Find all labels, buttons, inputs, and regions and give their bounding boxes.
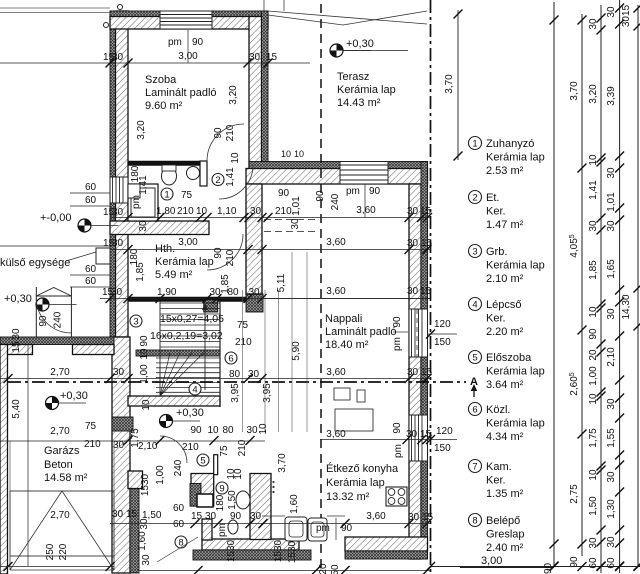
svg-text:6: 6 — [472, 405, 477, 416]
svg-text:180: 180 — [215, 494, 226, 511]
legend item 4 Lépcső — [469, 298, 482, 311]
svg-text:3,00: 3,00 — [178, 237, 198, 248]
dashed beam lines Nappali — [264, 219, 319, 221]
svg-text:pm: pm — [346, 186, 360, 197]
wall exterior north (hatch) — [110, 17, 268, 30]
wall north of Nappali (hatch) — [246, 169, 428, 185]
svg-text:pm: pm — [168, 37, 182, 48]
wall corner Nappali west top — [246, 294, 263, 312]
svg-text:15: 15 — [421, 238, 433, 249]
legend item 1 Zuhanyzó — [469, 137, 482, 150]
kitchen table — [335, 409, 373, 431]
svg-text:10: 10 — [294, 149, 304, 159]
circled 4 — [189, 383, 201, 395]
svg-text:3,20: 3,20 — [136, 120, 147, 140]
svg-text:Kerámia lap: Kerámia lap — [486, 366, 545, 378]
wall Hth north (hatch) — [110, 221, 209, 235]
WC2 sink — [228, 520, 238, 534]
wall exterior east insulation — [421, 162, 428, 560]
svg-text:1,10: 1,10 — [217, 206, 237, 217]
svg-text:3: 3 — [133, 317, 138, 328]
dim row y380 garage — [0, 378, 430, 380]
garage door panel — [10, 491, 114, 556]
kitchen sink double — [285, 517, 307, 541]
svg-text:9.60 m²: 9.60 m² — [145, 100, 183, 112]
svg-text:pm: pm — [217, 523, 228, 537]
svg-text:16x0,2,19=3,02: 16x0,2,19=3,02 — [150, 330, 223, 342]
svg-text:30: 30 — [209, 287, 221, 298]
wall pier stair — [204, 300, 218, 312]
diagonal step line Belepo — [157, 537, 198, 562]
svg-text:240: 240 — [330, 193, 341, 210]
svg-text:30: 30 — [112, 207, 124, 218]
svg-text:15: 15 — [420, 286, 432, 297]
svg-text:2.10 m²: 2.10 m² — [486, 273, 524, 285]
svg-text:3,60: 3,60 — [326, 429, 346, 440]
svg-text:30: 30 — [588, 537, 599, 549]
porch steps — [35, 287, 37, 337]
svg-text:külső egysége: külső egysége — [0, 257, 70, 269]
svg-text:90: 90 — [588, 328, 599, 340]
svg-text:1,60: 1,60 — [137, 531, 148, 551]
svg-text:90: 90 — [315, 190, 326, 202]
svg-text:Et.: Et. — [486, 192, 499, 204]
svg-text:150: 150 — [434, 443, 451, 454]
svg-text:30: 30 — [407, 206, 419, 217]
svg-text:120: 120 — [434, 319, 451, 330]
svg-text:1530: 1530 — [140, 473, 151, 496]
svg-text:180: 180 — [129, 248, 140, 265]
WC sink — [187, 167, 200, 180]
dim row y249 — [110, 249, 430, 251]
extension lines top — [263, 0, 265, 11]
svg-text:75: 75 — [85, 421, 97, 432]
svg-text:1,01: 1,01 — [291, 196, 302, 216]
svg-text:30: 30 — [250, 511, 262, 522]
counter edge lines — [262, 515, 285, 517]
wall south-east bottom (hatch) — [345, 537, 428, 551]
svg-text:9: 9 — [219, 484, 224, 495]
wall west lower insulation strip — [130, 484, 139, 573]
garage door witness lines — [9, 441, 11, 491]
svg-text:5,40: 5,40 — [11, 399, 22, 419]
svg-text:60: 60 — [173, 503, 185, 514]
dim row y523 — [110, 523, 430, 525]
roof lines top-left — [0, 7, 110, 9]
WC2 toilet — [236, 491, 250, 509]
svg-text:5: 5 — [472, 353, 477, 364]
svg-text:30: 30 — [11, 328, 22, 340]
svg-text:1,00: 1,00 — [588, 366, 599, 386]
svg-text:30: 30 — [408, 512, 420, 523]
dim chain line x554 — [553, 2, 555, 567]
svg-text:1530: 1530 — [226, 539, 237, 562]
wall south entry bottom (hatch) — [202, 539, 299, 550]
svg-text:3,95: 3,95 — [262, 383, 273, 403]
dim row y298 — [100, 298, 430, 300]
svg-text:14.43 m²: 14.43 m² — [337, 97, 381, 109]
wall WC north — [128, 161, 207, 166]
svg-text:1,41: 1,41 — [138, 175, 149, 195]
svg-text:1530: 1530 — [287, 540, 298, 563]
svg-text:1,00: 1,00 — [155, 465, 166, 485]
svg-text:Kam.: Kam. — [486, 461, 512, 473]
svg-text:3,20: 3,20 — [228, 85, 239, 105]
dim chain line x638 — [637, 5, 639, 566]
svg-text:30: 30 — [112, 509, 124, 520]
svg-text:3,60: 3,60 — [356, 205, 376, 216]
svg-text:240: 240 — [173, 459, 184, 476]
svg-text:10: 10 — [230, 152, 241, 164]
svg-text:+0,30: +0,30 — [346, 38, 374, 50]
svg-text:250: 250 — [45, 543, 56, 560]
svg-text:pm: pm — [316, 523, 330, 534]
circled 1 WC — [161, 188, 173, 200]
stair winder lines — [160, 353, 204, 397]
svg-text:30: 30 — [407, 367, 419, 378]
svg-text:30: 30 — [205, 511, 217, 522]
svg-text:1,65: 1,65 — [606, 259, 617, 279]
svg-text:2,70: 2,70 — [50, 367, 70, 378]
svg-text:+0,30: +0,30 — [60, 390, 88, 402]
svg-text:10: 10 — [139, 348, 150, 360]
wall garage north hatch right — [73, 345, 115, 355]
section dashed line x321 full height — [320, 4, 322, 574]
svg-text:18.40 m²: 18.40 m² — [325, 339, 369, 351]
legend item 3 Grb. — [469, 245, 482, 258]
svg-text:Ker.: Ker. — [486, 475, 506, 487]
svg-text:30: 30 — [249, 52, 261, 63]
window north of Nappali — [340, 162, 388, 185]
svg-text:30: 30 — [606, 536, 617, 548]
dim line Terasz height 3,70 — [457, 10, 459, 160]
svg-text:10: 10 — [141, 399, 152, 411]
svg-text:30: 30 — [606, 471, 617, 483]
svg-text:Beton: Beton — [44, 459, 73, 471]
svg-text:15: 15 — [421, 367, 433, 378]
dim chain line x619 — [619, 0, 621, 573]
dim line top row — [0, 62, 310, 64]
svg-text:30: 30 — [248, 287, 260, 298]
svg-text:Kerámia lap: Kerámia lap — [486, 152, 545, 164]
stove with burners — [386, 487, 407, 506]
svg-text:220: 220 — [58, 543, 69, 560]
svg-text:Szoba: Szoba — [145, 74, 177, 86]
wall stub WC east — [200, 161, 207, 186]
svg-text:90: 90 — [192, 37, 204, 48]
svg-text:+0,30: +0,30 — [176, 407, 204, 419]
svg-text:Kerámia lap: Kerámia lap — [155, 256, 214, 268]
svg-text:3,60: 3,60 — [366, 511, 386, 522]
door arc Hth — [207, 234, 243, 270]
svg-text:90: 90 — [190, 425, 202, 436]
svg-text:10: 10 — [588, 306, 599, 318]
svg-text:30: 30 — [113, 440, 125, 451]
svg-text:30: 30 — [407, 286, 419, 297]
wall south-east bottom insulation — [345, 551, 428, 559]
svg-text:14.58 m²: 14.58 m² — [44, 472, 88, 484]
svg-text:1,41: 1,41 — [225, 167, 236, 187]
svg-text:210: 210 — [275, 206, 292, 217]
svg-text:90: 90 — [139, 335, 150, 347]
svg-text:30: 30 — [141, 554, 152, 566]
wall exterior west upper (hatch) — [116, 11, 129, 337]
svg-text:15: 15 — [420, 429, 432, 440]
svg-text:Közl.: Közl. — [486, 404, 510, 416]
svg-text:1,90: 1,90 — [157, 287, 177, 298]
svg-text:Lépcső: Lépcső — [486, 299, 521, 311]
svg-text:8: 8 — [178, 538, 183, 549]
stair treads upper flight — [160, 302, 220, 304]
legend item 2 Et. — [469, 191, 482, 204]
svg-text:60: 60 — [85, 182, 97, 193]
svg-text:3,95: 3,95 — [230, 383, 241, 403]
svg-text:210: 210 — [235, 337, 252, 348]
svg-text:10: 10 — [281, 149, 291, 159]
svg-text:10: 10 — [588, 154, 599, 166]
svg-text:15: 15 — [126, 509, 138, 520]
svg-text:30: 30 — [606, 398, 617, 410]
svg-text:3,70: 3,70 — [569, 81, 580, 101]
svg-text:80: 80 — [227, 287, 239, 298]
svg-text:10: 10 — [196, 206, 208, 217]
svg-text:3,70: 3,70 — [277, 453, 288, 473]
svg-text:Ker.: Ker. — [486, 206, 506, 218]
dim chain line x601 — [600, 5, 602, 573]
shower tray — [128, 184, 158, 221]
svg-text:pm: pm — [393, 444, 404, 458]
legend bottom border — [460, 567, 554, 569]
svg-text:50: 50 — [330, 564, 341, 574]
svg-text:10: 10 — [258, 423, 269, 435]
svg-text:30: 30 — [606, 220, 617, 232]
svg-text:30: 30 — [588, 18, 599, 30]
svg-text:10: 10 — [207, 425, 219, 436]
dim row y440 entry — [0, 440, 265, 442]
svg-text:30: 30 — [290, 218, 301, 230]
legend item 5 Előszoba — [469, 351, 482, 364]
wall kitchen west (hatch) — [250, 474, 271, 540]
svg-text:1530: 1530 — [273, 539, 284, 562]
svg-text:90: 90 — [213, 247, 224, 259]
wall east of Szoba (hatch) — [249, 17, 262, 168]
svg-text:30: 30 — [246, 425, 258, 436]
svg-text:3,00: 3,00 — [481, 555, 502, 567]
svg-text:1,55: 1,55 — [606, 428, 617, 448]
svg-text:20: 20 — [588, 349, 599, 361]
svg-text:60: 60 — [85, 195, 97, 206]
svg-text:90: 90 — [369, 186, 381, 197]
svg-text:15: 15 — [11, 341, 22, 353]
svg-text:Garázs: Garázs — [44, 445, 80, 457]
WC toilet — [162, 167, 177, 185]
svg-text:210: 210 — [177, 206, 194, 217]
wall stub hall — [214, 455, 218, 475]
svg-text:10: 10 — [588, 393, 599, 405]
svg-text:2,10: 2,10 — [138, 441, 158, 452]
svg-text:1,41: 1,41 — [588, 180, 599, 200]
svg-text:2.53 m²: 2.53 m² — [486, 165, 524, 177]
svg-text:Belépő: Belépő — [486, 515, 520, 527]
svg-text:3,60: 3,60 — [326, 367, 346, 378]
svg-text:90: 90 — [230, 511, 242, 522]
svg-text:Étkező konyha: Étkező konyha — [326, 462, 399, 475]
dim chain x582 label 2,60 sup5 — [569, 372, 580, 395]
svg-text:150: 150 — [434, 337, 451, 348]
svg-text:3,60: 3,60 — [326, 286, 346, 297]
svg-text:80: 80 — [222, 425, 234, 436]
wall stair mid landing — [136, 350, 220, 356]
svg-text:1.47 m²: 1.47 m² — [486, 219, 524, 231]
svg-text:90: 90 — [392, 422, 403, 434]
circled 8 Belepo — [175, 536, 187, 548]
svg-text:Greslap: Greslap — [486, 529, 525, 541]
wall exterior west lower (hatch) — [112, 337, 130, 573]
svg-text:pm: pm — [131, 195, 142, 209]
svg-text:75: 75 — [219, 445, 230, 457]
svg-text:60: 60 — [173, 519, 185, 530]
circled 5 entry — [197, 454, 209, 466]
wall west lower jut — [128, 471, 143, 489]
legend item 8 Belépő — [469, 514, 482, 527]
svg-text:Grb.: Grb. — [486, 246, 507, 258]
svg-text:3,70: 3,70 — [444, 74, 455, 94]
svg-text:1: 1 — [164, 190, 169, 201]
svg-text:5,90: 5,90 — [291, 341, 302, 361]
svg-text:2,10: 2,10 — [606, 347, 617, 367]
AC outdoor unit — [96, 248, 110, 264]
svg-text:Laminált padló: Laminált padló — [325, 326, 397, 338]
stair treads lower flight — [156, 357, 220, 359]
door arc Szoba — [207, 124, 244, 161]
window east of Nappali upper — [409, 309, 428, 357]
svg-text:Zuhanyzó: Zuhanyzó — [486, 138, 534, 150]
svg-text:15: 15 — [266, 52, 278, 63]
door arc porch — [36, 298, 71, 333]
svg-text:75: 75 — [181, 190, 193, 201]
svg-text:Laminált padló: Laminált padló — [145, 87, 217, 99]
svg-text:30: 30 — [111, 287, 123, 298]
circled 3 stairs — [130, 315, 142, 327]
svg-text:30: 30 — [112, 52, 124, 63]
svg-text:+-0,00: +-0,00 — [40, 212, 72, 224]
svg-text:20: 20 — [318, 563, 329, 574]
svg-text:1.35 m²: 1.35 m² — [486, 488, 524, 500]
wall WC2 pier upper — [197, 494, 213, 507]
svg-text:15: 15 — [191, 511, 203, 522]
svg-text:3,39: 3,39 — [606, 86, 617, 106]
wall garage west — [0, 345, 8, 574]
svg-text:2.40 m²: 2.40 m² — [486, 542, 524, 554]
svg-text:1,00: 1,00 — [139, 364, 150, 384]
svg-text:5,11: 5,11 — [276, 273, 287, 292]
svg-text:1,50: 1,50 — [588, 496, 599, 516]
svg-text:90: 90 — [392, 316, 403, 328]
wall exterior north insulation — [110, 11, 268, 17]
dim row y217 — [110, 217, 430, 219]
wall Nappali west (hatch) — [246, 184, 262, 294]
wall south entry bottom insulation — [193, 550, 311, 560]
extension verticals middle — [242, 290, 244, 432]
door arc WC corridor — [219, 165, 253, 199]
wall exterior west upper insulation — [110, 11, 116, 337]
svg-text:30: 30 — [250, 206, 262, 217]
svg-text:15: 15 — [422, 512, 434, 523]
wall Hth south — [128, 297, 263, 302]
wall hall west dark step — [190, 484, 201, 507]
svg-text:240: 240 — [53, 311, 64, 328]
svg-text:5: 5 — [200, 456, 205, 467]
bottom middle line — [139, 570, 430, 572]
svg-text:6: 6 — [228, 354, 233, 365]
wall garage north insulation — [0, 337, 114, 345]
svg-text:Hth.: Hth. — [155, 243, 175, 255]
svg-text:90: 90 — [341, 523, 353, 534]
svg-text:210: 210 — [237, 439, 248, 456]
svg-text:Ker.: Ker. — [486, 313, 506, 325]
svg-text:7: 7 — [472, 462, 477, 473]
svg-text:Kerámia lap: Kerámia lap — [486, 418, 545, 430]
circled 2 — [212, 174, 224, 186]
wall exterior east (hatch) — [409, 184, 421, 559]
svg-text:30: 30 — [112, 238, 124, 249]
svg-text:3,20: 3,20 — [588, 84, 599, 104]
svg-text:2: 2 — [215, 175, 220, 186]
svg-text:60: 60 — [85, 264, 97, 275]
svg-text:3,60: 3,60 — [326, 237, 346, 248]
svg-text:Kerámia lap: Kerámia lap — [337, 84, 396, 96]
dim chain x582 label 4,05 sup5 — [569, 234, 580, 257]
wall north of Nappali insulation — [249, 162, 428, 169]
window east of Nappali lower — [409, 415, 428, 461]
svg-text:4: 4 — [472, 300, 477, 311]
svg-text:60: 60 — [85, 276, 97, 287]
legend item 7 Kam. — [469, 460, 482, 473]
roof overhang line above Terasz — [268, 11, 427, 25]
circled 6 stairs — [225, 352, 237, 364]
svg-text:30: 30 — [606, 167, 617, 179]
svg-text:15x0,27=4,05: 15x0,27=4,05 — [160, 313, 224, 325]
svg-text:2,70: 2,70 — [50, 426, 70, 437]
svg-text:3: 3 — [472, 247, 477, 258]
garage bottom dim line — [0, 566, 114, 568]
property dash-dot line east — [430, 0, 432, 574]
svg-text:3.64 m²: 3.64 m² — [486, 379, 524, 391]
svg-text:1,85: 1,85 — [588, 260, 599, 280]
svg-text:30: 30 — [606, 308, 617, 320]
svg-text:+0,30: +0,30 — [4, 293, 32, 305]
stair side edges — [219, 301, 221, 407]
legend item 6 Közl. — [469, 403, 482, 416]
dim line bottom right — [430, 566, 640, 568]
svg-text:8: 8 — [472, 516, 477, 527]
circled 9 WC2 — [216, 482, 228, 494]
svg-text:14,30: 14,30 — [621, 294, 632, 319]
door arc entry — [160, 436, 187, 463]
svg-text:Előszoba: Előszoba — [486, 352, 532, 364]
svg-text:4: 4 — [192, 385, 197, 396]
svg-text:5.49 m²: 5.49 m² — [155, 269, 193, 281]
wall hall west (hatch) — [191, 474, 214, 507]
stair up arrow — [204, 306, 206, 390]
window west wall WC — [110, 177, 128, 203]
kitchen counter rect Nappali — [334, 388, 350, 400]
wall east of Szoba insulation — [262, 11, 269, 168]
svg-text:13.32 m²: 13.32 m² — [326, 491, 370, 503]
dim chain line x582 — [581, 14, 583, 556]
svg-text:Nappali: Nappali — [325, 313, 362, 325]
svg-text:90: 90 — [278, 188, 290, 199]
